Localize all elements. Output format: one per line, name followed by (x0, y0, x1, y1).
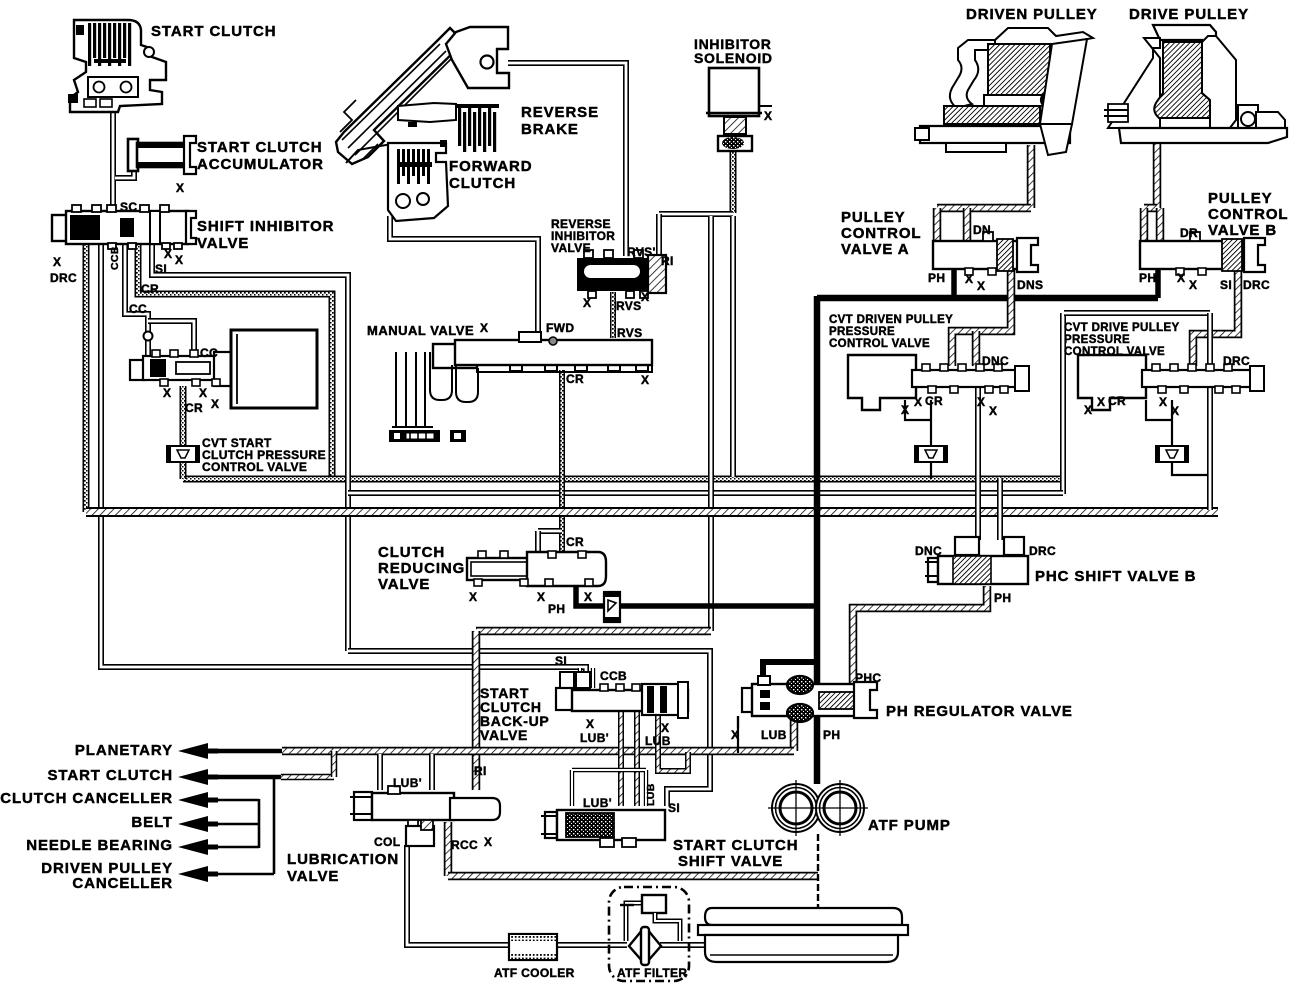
svg-text:CONTROL: CONTROL (1208, 206, 1288, 223)
svg-text:SOLENOID: SOLENOID (694, 50, 773, 66)
ATF pump (768, 780, 868, 836)
svg-text:VALVE: VALVE (551, 241, 591, 255)
svg-text:X: X (583, 296, 591, 310)
PH regulator valve (742, 676, 877, 722)
svg-text:SI: SI (155, 262, 167, 276)
CVT drive pulley pressure control valve with solenoid (1078, 355, 1264, 410)
svg-text:X: X (480, 321, 488, 335)
start clutch shift valve (541, 810, 665, 847)
start clutch assembly (68, 20, 166, 112)
lubrication valve (350, 786, 500, 846)
wire driven pulley feed to pulley control valve A (1027, 145, 1036, 208)
svg-text:RCC: RCC (451, 838, 478, 852)
svg-text:PULLEY: PULLEY (1208, 190, 1273, 207)
svg-text:PULLEY: PULLEY (841, 209, 906, 226)
wire SI net from shift inhibitor (152, 244, 348, 651)
wire LUB' loop box at shift valve (572, 770, 646, 806)
svg-text:REDUCING: REDUCING (378, 560, 465, 577)
wire DRC drop to PHC shift valve B (997, 478, 1003, 540)
svg-text:FORWARD: FORWARD (449, 158, 533, 175)
wire CC net loop to CVT start clutch pressure control valve (125, 244, 148, 356)
svg-text:VALVE: VALVE (287, 868, 339, 885)
svg-text:DRC: DRC (1223, 354, 1250, 368)
svg-text:X: X (731, 728, 739, 742)
svg-text:PH: PH (1139, 271, 1156, 285)
svg-text:CCB: CCB (600, 669, 627, 683)
pulley control valve A (933, 232, 1038, 275)
output arrows: planetary, start clutch, clutch canceller, belt, needle bearing, driven pulley canceller (178, 743, 208, 759)
svg-text:DRC: DRC (1029, 544, 1056, 558)
svg-text:COL: COL (374, 835, 400, 849)
svg-text:CONTROL VALVE: CONTROL VALVE (1064, 346, 1165, 358)
wire DNC net from driven pressure control valve to PHC shift valve B (975, 388, 981, 540)
wire right end riser of y478 bus (1060, 313, 1066, 494)
wire inhibitor solenoid hatched drop (730, 150, 737, 213)
svg-text:CONTROL: CONTROL (841, 225, 921, 242)
svg-text:X: X (764, 109, 772, 123)
svg-text:PRESSURE: PRESSURE (829, 326, 895, 338)
ATF cooler (509, 934, 557, 960)
svg-text:CR: CR (141, 282, 159, 296)
driven pulley (915, 28, 1093, 155)
svg-text:X: X (965, 272, 973, 286)
svg-text:X: X (175, 253, 183, 267)
wire forward clutch drain to manual valve (390, 216, 538, 338)
svg-text:VALVE B: VALVE B (1208, 222, 1277, 239)
svg-text:CANCELLER: CANCELLER (72, 875, 173, 892)
svg-text:BRAKE: BRAKE (521, 121, 579, 138)
wire DNS net from pulley control valve A to CVT driven pulley pressure control valve (952, 270, 1011, 366)
svg-text:CLUTCH: CLUTCH (378, 544, 445, 561)
svg-text:CCB: CCB (109, 246, 121, 270)
svg-text:START CLUTCH: START CLUTCH (197, 139, 323, 156)
wire CCB loop stubs at back-up valve (578, 668, 582, 688)
manual valve (389, 332, 652, 442)
svg-text:START CLUTCH: START CLUTCH (151, 23, 277, 40)
wire x733 drop to y478 bus (730, 216, 736, 477)
svg-text:CR: CR (566, 372, 584, 386)
wire solenoid elbow to reverse inhibitor valve RI port (659, 211, 733, 217)
svg-text:LUB': LUB' (393, 776, 422, 790)
inhibitor solenoid (706, 68, 772, 151)
svg-text:X: X (176, 181, 184, 195)
svg-text:X: X (977, 279, 985, 293)
svg-text:CLUTCH CANCELLER: CLUTCH CANCELLER (0, 790, 173, 807)
wire LUB port path to PH regulator X (658, 710, 688, 771)
svg-text:CC: CC (129, 302, 147, 316)
svg-text:CVT DRIVE PULLEY: CVT DRIVE PULLEY (1064, 322, 1180, 334)
svg-text:ATF COOLER: ATF COOLER (494, 966, 575, 980)
CVT driven pulley pressure control valve with solenoid (848, 355, 1029, 410)
svg-text:SC: SC (120, 200, 137, 214)
svg-text:X: X (914, 395, 922, 409)
svg-text:PH REGULATOR VALVE: PH REGULATOR VALVE (886, 703, 1073, 720)
svg-text:REVERSE: REVERSE (521, 104, 599, 121)
svg-text:DR: DR (1180, 226, 1198, 240)
svg-text:NEEDLE BEARING: NEEDLE BEARING (26, 837, 173, 854)
wire lubrication valve top ports to bus (377, 754, 383, 790)
svg-text:X: X (484, 835, 492, 849)
pulley control valve B (1140, 232, 1265, 275)
svg-text:LUB': LUB' (580, 731, 609, 745)
wire SI/DRC nets at pulley control valve B (1193, 270, 1238, 366)
wire drive pulley feed to pulley control valve B (1153, 128, 1162, 208)
wire CR from manual valve down to clutch reducing valve (559, 370, 565, 556)
svg-text:DRIVEN PULLEY: DRIVEN PULLEY (966, 6, 1098, 23)
wire SI to start clutch back-up valve and shift valve (348, 651, 710, 806)
svg-text:SHIFT VALVE: SHIFT VALVE (678, 853, 783, 870)
svg-text:X: X (1084, 403, 1092, 417)
svg-text:CR: CR (925, 394, 943, 408)
svg-text:DRIVE PULLEY: DRIVE PULLEY (1129, 6, 1249, 23)
wire RVS manual valve to reverse inhibitor valve (610, 292, 616, 338)
ATF filter (609, 887, 689, 981)
drive pulley (1104, 25, 1287, 143)
PH line restrictor fitting (604, 592, 620, 622)
svg-text:PH: PH (928, 271, 945, 285)
restrictor under driven pressure control valve (915, 446, 947, 462)
svg-text:ATF FILTER: ATF FILTER (617, 966, 687, 980)
svg-text:X: X (537, 590, 545, 604)
wire reverse brake to reverse inhibitor valve RVS' (508, 63, 626, 256)
svg-text:RI: RI (661, 254, 674, 268)
svg-text:LUB': LUB' (583, 796, 612, 810)
svg-text:LUB: LUB (761, 728, 787, 742)
svg-text:LUB: LUB (645, 734, 671, 748)
svg-text:DNS: DNS (1017, 278, 1043, 292)
wire CR drop from CVT start clutch pressure control valve (180, 386, 187, 479)
svg-text:X: X (1097, 395, 1105, 409)
svg-text:LUBRICATION: LUBRICATION (287, 851, 399, 868)
svg-text:PH: PH (548, 602, 565, 616)
svg-text:SI: SI (555, 654, 567, 668)
wire PH regulator left loop thick (763, 662, 817, 684)
shift inhibitor valve (52, 205, 196, 249)
svg-text:VALVE: VALVE (378, 576, 430, 593)
svg-text:DRC: DRC (50, 271, 77, 285)
svg-text:CR: CR (566, 535, 584, 549)
wire CR net: shift inhibitor right, down, and frame around CVT start clutch valve (138, 244, 332, 479)
svg-text:X: X (661, 721, 669, 735)
wire COL net: lubrication valve to ATF cooler and filter (407, 845, 510, 945)
svg-text:VALVE: VALVE (197, 235, 249, 252)
svg-text:X: X (584, 590, 592, 604)
svg-text:X: X (977, 395, 985, 409)
svg-text:RVS: RVS (616, 299, 642, 313)
wire ATF pump suction to oil pan (817, 834, 819, 922)
svg-text:PHC: PHC (855, 671, 881, 685)
svg-text:VALVE A: VALVE A (841, 241, 910, 258)
PHC shift valve B (925, 537, 1028, 584)
start clutch back-up valve (556, 672, 688, 718)
svg-text:START CLUTCH: START CLUTCH (673, 837, 799, 854)
wire PH thick net: clutch reducing to regulator and pulley control valves (576, 581, 603, 606)
svg-text:DRC: DRC (1243, 278, 1270, 292)
restrictor under drive pressure control valve (1156, 446, 1188, 462)
svg-text:X: X (1189, 278, 1197, 292)
clutch reducing valve (467, 551, 606, 586)
svg-text:CR: CR (1108, 394, 1126, 408)
svg-text:X: X (901, 403, 909, 417)
wire back-up valve LUB' ports down to start clutch shift valve (618, 710, 624, 806)
wire CR bus speckled horizontal y478 (183, 476, 1066, 483)
svg-text:CC: CC (200, 346, 218, 360)
svg-text:START CLUTCH: START CLUTCH (47, 767, 173, 784)
svg-text:BELT: BELT (131, 814, 173, 831)
svg-text:PH: PH (823, 728, 840, 742)
svg-text:X: X (1177, 271, 1185, 285)
oil pan (698, 908, 908, 962)
svg-text:PLANETARY: PLANETARY (75, 742, 173, 759)
wire CC loop at clutch reducing valve (538, 528, 562, 534)
svg-text:DNC: DNC (982, 354, 1009, 368)
wire start clutch drain row (205, 775, 281, 780)
svg-text:CONTROL VALVE: CONTROL VALVE (202, 460, 307, 474)
svg-text:PH: PH (994, 591, 1011, 605)
wire DRC hatched vertical to bus (83, 244, 90, 512)
reverse brake and forward clutch assembly (336, 27, 509, 221)
svg-text:X: X (211, 397, 219, 411)
svg-text:DNC: DNC (915, 544, 942, 558)
svg-text:RVS: RVS (617, 326, 643, 340)
svg-text:FWD: FWD (546, 321, 574, 335)
svg-text:PHC SHIFT VALVE B: PHC SHIFT VALVE B (1035, 568, 1196, 585)
svg-text:X: X (1171, 404, 1179, 418)
svg-text:VALVE: VALVE (480, 727, 528, 743)
svg-text:DN: DN (973, 223, 991, 237)
svg-text:X: X (989, 404, 997, 418)
svg-text:X: X (469, 590, 477, 604)
svg-text:CLUTCH: CLUTCH (449, 175, 516, 192)
svg-text:X: X (641, 290, 649, 304)
wire CCB net: shift inhibitor down, right to back-up valve (101, 244, 586, 676)
start clutch accumulator (128, 136, 196, 174)
svg-text:X: X (586, 717, 594, 731)
restrictor on CR drain of CVT start clutch valve (167, 446, 199, 462)
svg-text:CONTROL VALVE: CONTROL VALVE (829, 338, 930, 350)
svg-text:CVT DRIVEN PULLEY: CVT DRIVEN PULLEY (829, 314, 953, 326)
wire canceller bracket lines (205, 799, 259, 802)
wire RI net long vertical and across to lubrication valve (708, 216, 714, 631)
svg-text:SI: SI (668, 801, 680, 815)
svg-text:X: X (1159, 395, 1167, 409)
wire PHC net: PHC shift valve B to PH regulator valve (853, 586, 987, 684)
svg-text:MANUAL VALVE: MANUAL VALVE (367, 323, 474, 338)
svg-text:X: X (53, 255, 61, 269)
svg-text:X: X (641, 373, 649, 387)
wire RCC net: lubrication valve to bottom bus y876 (444, 822, 453, 876)
svg-text:X: X (164, 247, 172, 261)
CVT start clutch pressure control valve with solenoid (130, 330, 317, 408)
wire LUB net: PH regulator to bottom bus y750 (790, 714, 799, 751)
svg-text:CR: CR (185, 401, 203, 415)
wire planetary arrow line (205, 749, 282, 754)
svg-text:X: X (199, 386, 207, 400)
reverse inhibitor valve (577, 250, 666, 298)
svg-text:X: X (163, 386, 171, 400)
wire y512 main hatched bus (86, 507, 1218, 517)
svg-text:RI: RI (474, 764, 487, 778)
svg-text:SI: SI (1220, 278, 1232, 292)
wire SI branch y493 bus (348, 490, 1063, 496)
wire SC net: start clutch to shift inhibitor valve (110, 104, 116, 216)
svg-text:RVS': RVS' (627, 245, 656, 259)
wire drive pressure valve drain to restrictor and bus (1171, 400, 1173, 447)
svg-text:ACCUMULATOR: ACCUMULATOR (197, 156, 324, 173)
svg-text:LUB: LUB (645, 783, 657, 806)
svg-text:ATF PUMP: ATF PUMP (868, 817, 951, 834)
wire driven pressure valve drain to restrictor and bus (930, 400, 932, 447)
svg-text:SHIFT INHIBITOR: SHIFT INHIBITOR (197, 218, 334, 235)
svg-text:PRESSURE: PRESSURE (1064, 334, 1130, 346)
